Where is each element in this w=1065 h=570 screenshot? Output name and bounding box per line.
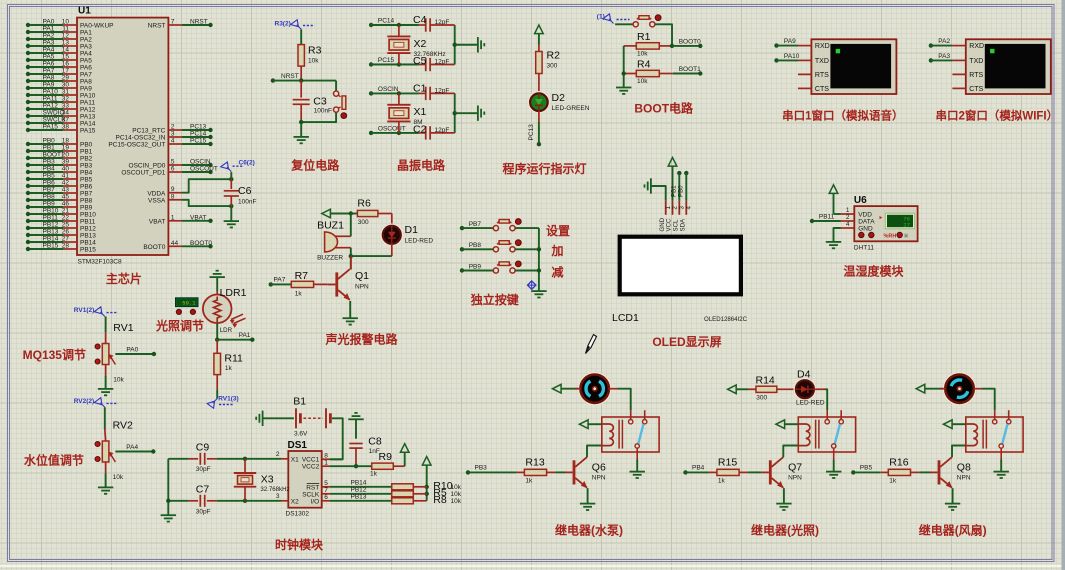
LED D1 LED-RED	[381, 214, 433, 257]
svg-text:PB4: PB4	[692, 465, 705, 472]
svg-text:39: 39	[62, 159, 70, 166]
LDR1 adjust buttons	[176, 309, 195, 314]
svg-text:1k: 1k	[525, 478, 533, 485]
pin PA8 (29) wire	[26, 75, 92, 86]
svg-text:PB11: PB11	[43, 215, 59, 222]
node PA1 wire	[215, 322, 255, 342]
resistor R13 1k	[516, 457, 565, 485]
svg-text:PB5: PB5	[860, 465, 873, 472]
wire fan to relay contact	[982, 389, 995, 411]
virtual terminal 串口2窗口（模拟WIFI）	[966, 39, 1051, 94]
svg-text:PB15: PB15	[80, 247, 96, 254]
BOOT pushbutton	[615, 15, 661, 27]
svg-text:RV1(3): RV1(3)	[218, 395, 238, 402]
svg-text:CTS: CTS	[969, 86, 983, 93]
svg-text:DATA: DATA	[858, 219, 875, 226]
svg-text:300: 300	[358, 219, 369, 226]
resistor R11 1k	[214, 340, 243, 390]
label 时钟模块	[275, 537, 324, 552]
svg-text:NPN: NPN	[355, 284, 369, 291]
svg-text:R13: R13	[525, 457, 544, 469]
pin 6 stub of DS1	[322, 494, 330, 501]
LED D2 LED-GREEN	[529, 92, 590, 112]
svg-text:PA8: PA8	[80, 79, 92, 86]
capacitor C4 12pF	[413, 14, 455, 32]
svg-text:PB8: PB8	[469, 242, 482, 249]
wire node R6 left junction	[349, 211, 358, 215]
svg-text:主芯片: 主芯片	[106, 271, 142, 286]
svg-text:PB3: PB3	[80, 163, 93, 170]
wire Q8 emitter to ground	[952, 488, 954, 503]
pin CTS stub	[798, 87, 811, 89]
svg-text:PB10: PB10	[43, 208, 59, 215]
node PB4 wire	[683, 465, 709, 475]
svg-text:BUZZER: BUZZER	[317, 255, 343, 262]
svg-text:Q8: Q8	[957, 462, 971, 474]
capacitor C8 1nF	[349, 419, 382, 466]
node BOOT1 wire	[673, 66, 703, 76]
svg-text:8M: 8M	[414, 119, 423, 126]
svg-text:DS1302: DS1302	[286, 511, 310, 518]
svg-text:X2: X2	[414, 38, 427, 50]
svg-text:PA7: PA7	[274, 277, 286, 284]
power arrow left of pump motor	[553, 384, 581, 393]
svg-text:OSCIN: OSCIN	[378, 86, 399, 93]
svg-text:PA3: PA3	[938, 53, 950, 60]
pin RXD stub	[798, 45, 811, 47]
svg-text:BOOT电路: BOOT电路	[634, 101, 694, 116]
wire Q6 collector to relay coil	[587, 446, 602, 458]
node PB5 wire	[851, 465, 880, 475]
svg-text:R8: R8	[433, 494, 447, 506]
svg-text:VDDA: VDDA	[147, 190, 166, 197]
svg-text:PA6: PA6	[43, 61, 55, 68]
svg-text:PB12: PB12	[80, 226, 96, 233]
pin PA9 (30) wire	[26, 82, 92, 93]
resistor R14 300	[748, 374, 796, 401]
pin PA7 (17) wire	[26, 68, 92, 79]
ground of reset circuit	[294, 137, 309, 143]
label 加	[550, 243, 563, 258]
svg-text:R7: R7	[295, 270, 309, 282]
svg-text:光照调节: 光照调节	[155, 318, 204, 333]
svg-text:NPN: NPN	[592, 475, 606, 482]
potentiometer RV1 10k	[95, 317, 134, 384]
svg-text:100nF: 100nF	[238, 199, 256, 206]
label 主芯片	[106, 271, 142, 286]
svg-text:59.1: 59.1	[182, 300, 196, 307]
pin PB1 (19) wire	[26, 145, 93, 156]
LED D4 LED-RED	[795, 369, 826, 407]
svg-text:PC15: PC15	[190, 138, 207, 145]
svg-text:PB8: PB8	[80, 198, 93, 205]
svg-text:I/O: I/O	[311, 498, 320, 505]
transistor Q6 NPN	[565, 457, 606, 488]
virtual terminal 串口1窗口（模拟语音）	[811, 39, 896, 94]
svg-text:34: 34	[62, 110, 70, 117]
svg-text:Q7: Q7	[788, 462, 802, 474]
pin PB14 (27) wire	[26, 236, 96, 247]
reset pushbutton	[334, 81, 347, 119]
svg-text:11: 11	[62, 26, 69, 33]
wire Q7 emitter to ground	[783, 488, 785, 503]
svg-text:R16: R16	[889, 457, 908, 469]
pin NRST (7) wire to node NRST	[148, 19, 213, 30]
wire left rail R1-R4-ground	[622, 46, 626, 88]
pin 7 stub of DS1	[322, 487, 330, 494]
svg-text:PA3: PA3	[43, 40, 55, 47]
pin OSCIN_PD0 (5) wire to node OSCIN	[129, 159, 213, 170]
svg-text:PA15: PA15	[80, 128, 96, 135]
label 水位值调节	[24, 453, 84, 468]
wire PB7 button to right rail	[515, 227, 539, 229]
label 温湿度模块	[843, 264, 904, 279]
ground of BOOT circuit	[616, 88, 631, 94]
svg-text:PA5: PA5	[80, 58, 92, 65]
svg-text:PB1: PB1	[43, 145, 56, 152]
svg-text:NRST: NRST	[190, 19, 208, 26]
resistor R8 10k	[392, 494, 462, 506]
svg-text:PB1: PB1	[80, 149, 93, 156]
svg-text:PC13: PC13	[190, 124, 207, 131]
svg-text:NPN: NPN	[957, 475, 971, 482]
svg-text:42: 42	[62, 180, 70, 187]
svg-text:7: 7	[171, 19, 175, 26]
svg-text:设置: 设置	[546, 223, 570, 238]
wire node PA10	[774, 53, 799, 63]
svg-text:PA6: PA6	[80, 65, 92, 72]
svg-text:LED-RED: LED-RED	[405, 238, 434, 245]
svg-text:声光报警电路: 声光报警电路	[324, 332, 398, 347]
wire BUZ1 to R6 rail	[350, 214, 352, 237]
label 继电器(光照)	[751, 523, 819, 538]
svg-text:PB4: PB4	[43, 166, 56, 173]
svg-text:PB11: PB11	[80, 219, 96, 226]
wire node PA9	[774, 38, 798, 48]
svg-text:D4: D4	[797, 369, 811, 381]
chip DS1 DS1302	[286, 440, 322, 518]
svg-text:PB3: PB3	[43, 159, 56, 166]
pushbutton PB9	[493, 261, 521, 273]
svg-text:32: 32	[62, 96, 70, 103]
svg-text:PB0: PB0	[43, 138, 56, 145]
svg-text:10k: 10k	[451, 498, 462, 505]
svg-text:300: 300	[547, 63, 558, 70]
resistor R3 10k	[298, 29, 322, 80]
wire button to C3 bottom	[299, 112, 336, 137]
pin PB5 (41) wire	[26, 173, 93, 184]
svg-text:PB8: PB8	[43, 194, 56, 201]
svg-text:3.6V: 3.6V	[294, 431, 308, 438]
svg-text:MQ135调节: MQ135调节	[23, 347, 86, 362]
svg-text:5: 5	[171, 159, 175, 166]
svg-text:12pF: 12pF	[435, 19, 450, 26]
pushbutton PB8	[493, 240, 521, 252]
motor pump symbol	[575, 373, 618, 404]
pin VCC (2) of LCD1	[666, 201, 679, 232]
pin PA2 (12) wire	[26, 33, 92, 44]
pin PA5 (15) wire	[26, 54, 92, 65]
svg-text:PA4: PA4	[80, 51, 92, 58]
svg-text:44: 44	[171, 240, 179, 247]
pin PB13 (26) wire	[26, 229, 96, 240]
svg-text:PB14: PB14	[43, 236, 59, 243]
svg-text:R3(2): R3(2)	[275, 21, 291, 28]
svg-text:1k: 1k	[225, 365, 233, 372]
svg-text:减: 减	[551, 264, 563, 279]
label 程序运行指示灯	[502, 161, 586, 176]
svg-text:PB3: PB3	[475, 465, 488, 472]
svg-text:PA0-WKUP: PA0-WKUP	[80, 23, 113, 30]
svg-text:X1: X1	[291, 456, 299, 463]
svg-text:30: 30	[62, 82, 70, 89]
capacitor C2 12pF	[413, 123, 455, 139]
svg-text:RST: RST	[306, 484, 319, 491]
label 声光报警电路	[324, 332, 398, 347]
capacitor C3 100nF	[293, 81, 332, 123]
pull-up rail power arrow	[422, 457, 431, 501]
wire relay contact to ground	[833, 460, 835, 472]
LDR1 display 59.1	[176, 298, 199, 307]
svg-text:NPN: NPN	[788, 475, 802, 482]
wire caps left rail to ground	[166, 459, 170, 515]
svg-text:SCLK: SCLK	[302, 491, 320, 498]
svg-text:LED-GREEN: LED-GREEN	[552, 105, 590, 112]
svg-text:PB5: PB5	[43, 173, 56, 180]
pin VBAT (1) wire to node VBAT	[149, 214, 213, 225]
svg-text:PB6: PB6	[80, 184, 93, 191]
svg-text:X3: X3	[261, 474, 274, 486]
wire battery to VCC1	[330, 418, 343, 459]
svg-text:PB9: PB9	[469, 263, 482, 270]
svg-text:PA11: PA11	[43, 96, 58, 103]
wire node PB0 to SDA	[678, 171, 689, 201]
wire PB9 button to right rail	[515, 270, 539, 272]
svg-text:41: 41	[62, 173, 70, 180]
ground of U6	[826, 242, 841, 248]
svg-text:串口1窗口（模拟语音）: 串口1窗口（模拟语音）	[782, 109, 903, 123]
wire BUZ1 to collector rail	[349, 248, 353, 270]
svg-text:PB11: PB11	[819, 213, 835, 220]
pin PA3 (13) wire	[26, 40, 92, 51]
wire crystal block right rail	[453, 25, 478, 65]
svg-text:Q1: Q1	[355, 270, 369, 282]
svg-text:6: 6	[171, 166, 175, 173]
wire X2 row	[245, 500, 281, 502]
pin PA12 (33) wire	[26, 103, 96, 114]
label 复位电路	[290, 158, 340, 173]
svg-text:SDA: SDA	[680, 218, 687, 231]
pin PA0-WKUP (10) wire	[26, 19, 114, 30]
svg-text:PB13: PB13	[80, 233, 96, 240]
svg-text:32.768kHz: 32.768kHz	[260, 486, 289, 493]
pin GND (1) of LCD1	[659, 201, 672, 232]
svg-text:PA4: PA4	[126, 444, 138, 451]
node OSCIN wire	[369, 86, 419, 96]
svg-text:7: 7	[324, 487, 328, 494]
wire D1 bottom to junction	[351, 255, 392, 257]
ground of RV2	[98, 487, 113, 493]
node PB8 wire	[460, 242, 494, 251]
svg-text:13: 13	[62, 40, 70, 47]
wire node PA3	[929, 53, 953, 63]
svg-text:100nF: 100nF	[314, 108, 332, 115]
label 光照调节	[155, 318, 204, 333]
svg-text:C6(2): C6(2)	[239, 160, 255, 167]
pin PB3 (39) wire	[26, 159, 93, 170]
svg-text:RV2: RV2	[113, 420, 133, 432]
wire GND pin to ground	[651, 186, 666, 201]
svg-text:TXD: TXD	[815, 58, 829, 65]
pin X1 (2) stub	[276, 451, 288, 459]
svg-text:TXD: TXD	[969, 58, 983, 65]
svg-text:16: 16	[62, 61, 70, 68]
ground of C9 C7	[161, 515, 176, 521]
svg-text:C1: C1	[413, 82, 427, 94]
svg-text:BUZ1: BUZ1	[317, 220, 344, 232]
svg-text:C8: C8	[368, 436, 382, 448]
pin 8 stub of DS1	[322, 453, 330, 460]
svg-text:2: 2	[171, 124, 175, 131]
label OLED显示屏	[652, 335, 721, 349]
svg-text:PA10: PA10	[80, 93, 96, 100]
svg-text:VBAT: VBAT	[149, 218, 166, 225]
svg-text:37: 37	[62, 117, 70, 124]
svg-text:PA8: PA8	[43, 75, 55, 82]
svg-text:PB5: PB5	[80, 177, 93, 184]
svg-text:22: 22	[62, 215, 70, 222]
resistor R6 300	[357, 198, 391, 227]
svg-text:水位值调节: 水位值调节	[24, 453, 84, 468]
svg-text:LDR1: LDR1	[220, 287, 247, 299]
buzzer BUZ1	[317, 220, 351, 262]
wire RV1 to ground	[105, 365, 107, 389]
svg-text:PA14: PA14	[80, 121, 96, 128]
svg-text:25: 25	[62, 222, 70, 229]
pushbutton PB7	[493, 219, 521, 231]
capacitor C7 30pF	[168, 483, 245, 515]
svg-text:RV1(2): RV1(2)	[74, 307, 94, 314]
svg-text:C4: C4	[413, 14, 427, 26]
pin RTS stub	[952, 73, 965, 75]
svg-text:R14: R14	[756, 374, 775, 386]
svg-text:X2: X2	[291, 498, 299, 505]
svg-text:1: 1	[171, 214, 175, 221]
pin PB8 (45) wire	[26, 194, 93, 205]
svg-text:继电器(光照): 继电器(光照)	[751, 523, 819, 538]
power arrow right of R9	[400, 444, 409, 467]
svg-text:继电器(风扇): 继电器(风扇)	[919, 523, 987, 538]
svg-text:1k: 1k	[718, 478, 726, 485]
svg-text:VSSA: VSSA	[148, 197, 166, 204]
pin PA10 (31) wire	[26, 89, 96, 100]
svg-text:PA5: PA5	[43, 54, 55, 61]
ground of alarm circuit	[343, 318, 358, 324]
svg-text:8: 8	[171, 193, 175, 200]
voltage probe RV2(2)	[74, 398, 118, 408]
capacitor C5 12pF	[413, 55, 455, 71]
svg-text:U6: U6	[854, 195, 867, 206]
svg-text:OSCOUT: OSCOUT	[378, 125, 406, 132]
label 串口1窗口（模拟语音）	[782, 109, 903, 123]
pin SCL (3) of LCD1	[673, 201, 686, 232]
svg-text:300: 300	[756, 394, 767, 401]
svg-text:RV1: RV1	[113, 322, 133, 334]
svg-text:RV2(2): RV2(2)	[74, 398, 94, 405]
pin PB7 (43) wire	[26, 187, 93, 198]
relay 继电器(风扇)	[966, 410, 1023, 459]
node PB3 wire	[466, 465, 517, 475]
svg-text:CTS: CTS	[815, 86, 829, 93]
svg-text:PA13: PA13	[80, 114, 96, 121]
resistor R5 10k	[392, 487, 462, 499]
capacitor C1 12pF	[413, 82, 455, 100]
svg-text:BOOT0: BOOT0	[190, 240, 212, 247]
mouse cursor pencil	[586, 335, 597, 354]
svg-text:PA0: PA0	[126, 346, 138, 353]
ground of keys	[531, 291, 546, 297]
pin OSCOUT_PD1 (6) wire to node OSCOUT	[121, 166, 218, 177]
svg-text:LCD1: LCD1	[612, 312, 639, 324]
svg-text:29: 29	[62, 75, 70, 82]
svg-text:33: 33	[62, 103, 70, 110]
resistor R4 10k	[624, 59, 673, 85]
svg-text:R9: R9	[379, 451, 393, 463]
label 串口2窗口（模拟WIFI）	[935, 109, 1058, 123]
resistor R7 1k	[291, 270, 328, 298]
wire node PB1 to SCL	[671, 171, 682, 201]
svg-text:PB7: PB7	[469, 221, 482, 228]
svg-text:NRST: NRST	[148, 23, 166, 30]
ground (flipped) above LDR1	[210, 271, 225, 277]
svg-text:PA2: PA2	[938, 38, 950, 45]
wire node PB12	[330, 487, 392, 494]
power arrow above OLED VCC	[668, 158, 677, 201]
svg-text:PB9: PB9	[80, 205, 93, 212]
pin RXD stub	[952, 45, 965, 47]
wire relay contact to ground	[636, 460, 638, 472]
svg-text:%RH: %RH	[884, 233, 897, 239]
svg-text:PB14: PB14	[80, 240, 96, 247]
svg-text:C6: C6	[238, 185, 252, 197]
svg-text:40: 40	[62, 166, 70, 173]
svg-text:21: 21	[62, 208, 70, 215]
svg-text:PA15: PA15	[43, 124, 59, 131]
label 继电器(水泵)	[555, 523, 623, 538]
svg-text:RXD: RXD	[815, 43, 830, 50]
ground of Q8	[945, 504, 960, 510]
capacitor C6 100nF	[224, 172, 257, 221]
svg-text:NRST: NRST	[281, 73, 299, 80]
svg-text:3: 3	[276, 493, 280, 500]
svg-text:PC14: PC14	[378, 18, 395, 25]
svg-text:27: 27	[62, 236, 70, 243]
pin TXD stub	[952, 59, 965, 61]
svg-text:R2: R2	[547, 50, 561, 62]
voltage probe (1)	[597, 14, 630, 24]
pin PB10 (21) wire	[26, 208, 96, 219]
svg-text:PB1: PB1	[671, 185, 678, 197]
wire Q7 collector to relay coil	[783, 446, 798, 458]
pin PA1 (11) wire	[26, 26, 92, 37]
svg-text:PA11: PA11	[80, 100, 95, 107]
svg-text:VBAT: VBAT	[190, 214, 207, 221]
svg-text:PB7: PB7	[43, 187, 56, 194]
battery B1 3.6V	[263, 396, 331, 438]
svg-text:PA12: PA12	[43, 103, 59, 110]
svg-text:20: 20	[62, 152, 70, 159]
svg-text:时钟模块: 时钟模块	[275, 537, 324, 552]
